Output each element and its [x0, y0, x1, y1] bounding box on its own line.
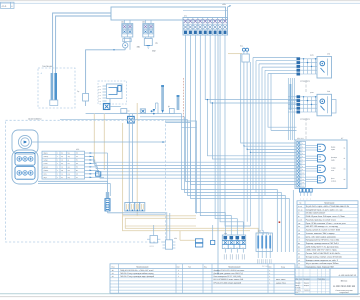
svg-text:повор.: повор.	[44, 156, 49, 158]
svg-text:ПЖБ-10 реле блок. 24В пров. се: ПЖБ-10 реле блок. 24В пров. сечен. 0,75м…	[306, 215, 345, 218]
svg-text:КП-501 САВ7Б 24В-2Г: КП-501 САВ7Б 24В-2Г	[306, 212, 326, 215]
svg-text:Т.контр.: Т.контр.	[296, 287, 302, 289]
svg-text:чер: чер	[68, 156, 71, 158]
svg-text:АКБ 6СТ-190 выводы «+» к старт: АКБ 6СТ-190 выводы «+» к стартеру	[306, 225, 338, 228]
svg-text:Соединение пров. от датч. Щ-24: Соединение пров. от датч. Щ-24 с кл. «Д»	[306, 208, 343, 211]
svg-text:2Н4: 2Н4	[327, 90, 330, 93]
svg-text:стекл: стекл	[44, 163, 48, 165]
svg-text:Тип: Тип	[188, 265, 191, 268]
svg-text:Лампы А24-21-3 и А24-5 по ГОСТ: Лампы А24-21-3 и А24-5 по ГОСТ 2023	[306, 229, 340, 232]
svg-text:Иванов: Иванов	[304, 282, 309, 284]
svg-text:«22В» МЗ-2 120-ТУ1* «Вент» Про: «22В» МЗ-2 120-ТУ1* «Вент» Пров.	[306, 249, 338, 252]
svg-text:Примечание: Примечание	[324, 202, 334, 205]
svg-text:ТАБ-ЗБ-НВ: ТАБ-ЗБ-НВ	[42, 65, 53, 68]
svg-text:син: син	[68, 170, 71, 172]
svg-text:№: №	[300, 202, 302, 205]
svg-text:Дата: Дата	[322, 278, 325, 280]
svg-text:2Н2: 2Н2	[327, 53, 330, 56]
svg-text:колодка реле: колодка реле	[300, 119, 310, 121]
svg-text:прав.: прав.	[331, 149, 336, 151]
svg-text:Выводы клемм соединять по табл: Выводы клемм соединять по табл. 2	[306, 259, 338, 262]
svg-text:2В2: 2В2	[121, 21, 124, 24]
svg-text:Жгуты крепить скобами через 25: Жгуты крепить скобами через 250мм	[306, 262, 339, 265]
svg-text:＋: ＋	[40, 72, 42, 75]
svg-text:ВК-24-3709000-01 выкл. массы 2: ВК-24-3709000-01 выкл. массы 24В	[214, 278, 244, 281]
svg-text:реле: реле	[310, 92, 314, 94]
svg-text:Предохранители ПР119 на 7,5А и: Предохранители ПР119 на 7,5А и 20А	[306, 239, 340, 242]
svg-text:Лист: Лист	[299, 278, 302, 280]
svg-text:Разъемы присоед. по схеме жгут: Разъемы присоед. по схеме жгута	[306, 218, 337, 221]
svg-text:Петров: Петров	[304, 285, 309, 287]
svg-text:А7: А7	[341, 137, 343, 140]
svg-text:Цепь «15» через замок зажигани: Цепь «15» через замок зажигания	[306, 235, 336, 238]
svg-text:Пр: Пр	[77, 90, 79, 93]
svg-text:«30»: «30»	[222, 3, 226, 6]
svg-text:Н.контр.: Н.контр.	[296, 290, 302, 292]
svg-text:Датчик указ. уровня топл. БМ1: Датчик указ. уровня топл. БМ117-Д	[214, 272, 244, 275]
svg-text:соединений: соединений	[339, 291, 348, 294]
svg-text:ГМЗ-53-02 жгут проводов кабины: ГМЗ-53-02 жгут проводов кабины перед.	[120, 272, 154, 275]
svg-text:Зона: Зона	[281, 265, 285, 268]
svg-text:SА1: SА1	[240, 45, 243, 48]
svg-text:нагрев. блок: нагрев. блок	[276, 281, 286, 284]
svg-text:Пров.: Пров.	[296, 285, 300, 287]
svg-text:Наименование: Наименование	[228, 265, 240, 268]
svg-text:лев.: лев.	[331, 170, 335, 172]
svg-text:жел: жел	[68, 167, 71, 169]
svg-text:ХР2: ХР2	[76, 148, 79, 151]
svg-text:Реле поворотов РС-57 12В (24В): Реле поворотов РС-57 12В (24В)	[214, 275, 242, 278]
svg-text:ХТ1: ХТ1	[184, 15, 187, 18]
svg-text:ПЖД-30-1015500-04 т. «ПАЗ»-А07: ПЖД-30-1015500-04 т. «ПАЗ»-А07 и асб	[120, 269, 153, 272]
svg-text:Сидоров: Сидоров	[304, 290, 310, 292]
svg-text:номер.: номер.	[331, 180, 337, 182]
svg-text:Наименование: Наименование	[136, 265, 148, 268]
svg-text:Фонари освещ. номерн. знака ФП: Фонари освещ. номерн. знака ФП134 (Б)	[306, 255, 342, 258]
svg-text:АМФ 21-ВЦ 502 У-Т 21. Датчики: АМФ 21-ВЦ 502 У-Т 21. Датчики блок.	[306, 245, 340, 248]
svg-text:ЭЦ 40 ПМТ-4 ЦИА «-ВТБ» СТ540-2: ЭЦ 40 ПМТ-4 ЦИА «-ВТБ» СТ540-24В АВШ 12.…	[306, 205, 349, 208]
svg-text:зел: зел	[68, 163, 70, 165]
svg-text:тормоз: тормоз	[149, 246, 154, 248]
svg-text:выкл. замок: выкл. замок	[276, 279, 286, 281]
svg-text:Поз: Поз	[112, 265, 115, 268]
svg-text:Сигнал. ЗИП-А 24В 335-2Г В-19: Сигнал. ЗИП-А 24В 335-2Г В-19 «ВИП»	[306, 252, 341, 255]
svg-text:А-190 2410.030 ЭЗ: А-190 2410.030 ЭЗ	[333, 285, 355, 288]
svg-text:зву: зву	[155, 43, 158, 45]
svg-text:сер: сер	[68, 177, 71, 179]
svg-text:салон кабины: салон кабины	[28, 117, 42, 120]
svg-text:2В3: 2В3	[142, 21, 145, 24]
svg-text:реле: реле	[310, 55, 314, 57]
svg-text:Изм: Изм	[296, 278, 299, 280]
svg-text:№ докум.: № докум.	[304, 278, 311, 280]
svg-text:Экранир. провода магнето ПВС 2: Экранир. провода магнето ПВС 2х0,5	[306, 242, 339, 245]
svg-text:кор: кор	[68, 174, 71, 176]
svg-text:задн.: задн.	[331, 159, 336, 161]
svg-text:кр: кр	[68, 160, 70, 162]
svg-text:дальн: дальн	[44, 167, 49, 169]
svg-text:Пров. ПГВА сечением 1,0 мм — е: Пров. ПГВА сечением 1,0 мм — если не ука…	[306, 222, 347, 225]
svg-text:ПР110-3721.000 сигнал звуковой: ПР110-3721.000 сигнал звуковой	[214, 281, 241, 284]
svg-text:ГМЗ-53-07 жгут проводов задн.: ГМЗ-53-07 жгут проводов задн. фонарей	[120, 275, 154, 278]
svg-text:42-Ф: 42-Ф	[2, 5, 7, 8]
svg-text:Вентис: Вентис	[341, 279, 348, 282]
svg-text:А-190 2410.030 ЭЗ: А-190 2410.030 ЭЗ	[338, 274, 357, 277]
svg-text:колодка реле: колодка реле	[300, 81, 310, 83]
svg-text:звук: звук	[44, 177, 47, 179]
svg-text:Установ. комплект ЭФУ с подогр: Установ. комплект ЭФУ с подогр.	[306, 232, 336, 235]
svg-text:сигн.: сигн.	[44, 174, 48, 176]
svg-text:Фонарь УП101-3712.010-04 со ст: Фонарь УП101-3712.010-04 со стекл.	[214, 269, 245, 272]
